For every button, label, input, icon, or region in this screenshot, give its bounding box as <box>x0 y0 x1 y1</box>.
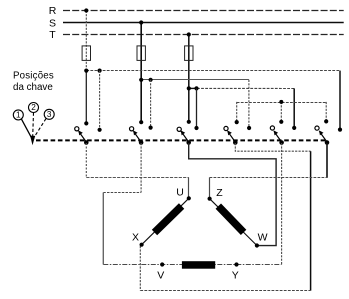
svg-text:Y: Y <box>232 269 239 281</box>
svg-text:2: 2 <box>31 103 36 112</box>
svg-text:V: V <box>157 269 164 281</box>
svg-text:T: T <box>49 29 56 41</box>
svg-text:da chave: da chave <box>13 82 53 93</box>
svg-text:S: S <box>49 17 56 29</box>
svg-text:R: R <box>49 5 57 17</box>
svg-text:W: W <box>258 232 268 244</box>
svg-text:3: 3 <box>47 110 52 119</box>
svg-text:U: U <box>176 187 184 199</box>
svg-text:1: 1 <box>16 111 21 120</box>
svg-text:Posições: Posições <box>13 71 54 82</box>
svg-text:Z: Z <box>216 187 223 199</box>
svg-text:X: X <box>132 231 139 243</box>
